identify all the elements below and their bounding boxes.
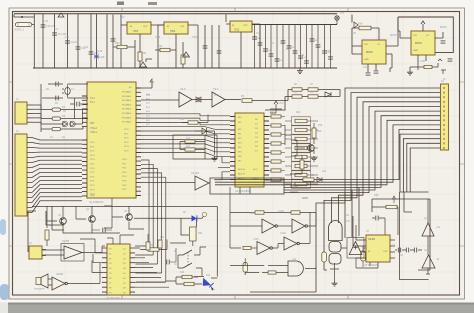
resistor R32	[160, 48, 170, 51]
resistor R38	[148, 248, 159, 251]
svg-text:U1 AT89C51: U1 AT89C51	[89, 200, 104, 204]
wire top supply rail	[14, 13, 337, 15]
wire U1-U2 data 1	[141, 114, 230, 116]
resistor R37	[45, 230, 49, 240]
wire speaker out	[48, 279, 52, 285]
wire C5	[170, 248, 176, 262]
svg-text:P0.5/AD5: P0.5/AD5	[122, 112, 132, 115]
resistor R50 on bus	[303, 178, 314, 181]
resistor R45	[291, 211, 300, 214]
resistor R42	[182, 275, 192, 278]
resistor network R13	[271, 115, 281, 118]
wire U2 lower left stubs	[214, 157, 230, 180]
inverter U12B	[292, 219, 305, 233]
wire rail drop 9	[106, 15, 108, 69]
svg-text:74LS: 74LS	[180, 89, 186, 91]
wire U3 left harness	[80, 239, 102, 273]
inverter U12D	[284, 237, 297, 250]
svg-text:P2.2: P2.2	[124, 138, 129, 140]
capacitor C9	[413, 248, 415, 253]
wire filter drop 5	[276, 25, 278, 69]
resistor R39	[146, 242, 150, 250]
svg-text:R37: R37	[48, 225, 53, 227]
wire bus K1 line 8	[215, 120, 441, 185]
svg-text:P0.7/AD7: P0.7/AD7	[122, 121, 132, 124]
svg-text:C10: C10	[44, 21, 49, 23]
regulator U10 7806	[164, 22, 188, 34]
svg-text:R40: R40	[160, 237, 165, 239]
regulator U9 7805	[127, 22, 151, 34]
wire A2 net	[427, 199, 429, 250]
svg-text:ULN: ULN	[345, 221, 350, 223]
capacitor C20	[263, 48, 268, 50]
wire R32 net	[155, 42, 176, 68]
junction dot	[21, 16, 23, 18]
wire section box top	[32, 205, 217, 207]
U5 left pins	[361, 240, 366, 258]
wire J1 pin 1	[27, 104, 33, 106]
svg-text:P0.0/AD0: P0.0/AD0	[122, 91, 132, 94]
wire U6C in	[141, 183, 230, 213]
wire J2 pin 7	[27, 164, 82, 167]
resistor R11	[185, 148, 195, 151]
wire J1 harness	[33, 105, 41, 124]
svg-text:R21: R21	[296, 112, 301, 114]
resistor R52	[361, 251, 366, 261]
capacitor C15	[111, 38, 116, 40]
svg-text:7805: 7805	[155, 37, 161, 39]
capacitor C17	[217, 50, 222, 52]
resistor R41	[190, 227, 197, 241]
svg-text:C12: C12	[65, 37, 70, 39]
capacitor C3 reset	[76, 102, 78, 107]
svg-text:R30: R30	[115, 42, 120, 45]
wire drop 14	[218, 25, 220, 68]
diode D13 on bus	[317, 177, 322, 182]
svg-text:VCC: VCC	[120, 17, 125, 19]
dc-dc converter U7	[362, 40, 386, 64]
wire rail drop 4	[77, 14, 79, 68]
svg-text:7806: 7806	[170, 31, 176, 33]
capacitor C19	[258, 42, 263, 44]
dc-dc converter U8	[411, 31, 435, 55]
resistor R44	[255, 211, 264, 214]
svg-text:P2.6: P2.6	[90, 168, 95, 170]
audio amp U5	[366, 235, 390, 262]
wire bus MCU down 3	[141, 169, 157, 264]
wire filter drop 13	[324, 25, 326, 69]
U3 right pins	[130, 248, 135, 292]
capacitor C8	[405, 248, 407, 253]
wire U1-U2 data 4	[141, 127, 230, 130]
wire Q1 net	[47, 206, 63, 234]
wire J2 pin 6	[27, 160, 82, 162]
wire BZ1 bottom	[330, 263, 339, 281]
power flag br	[392, 196, 396, 203]
svg-text:R41: R41	[198, 232, 203, 235]
power flag U1	[150, 79, 154, 82]
wire J2 pin 9	[27, 172, 82, 177]
svg-text:74LS: 74LS	[213, 89, 219, 91]
wire bus K1 line 14	[410, 148, 441, 192]
resistor R46 vertical	[243, 263, 248, 273]
wire R29 net	[313, 123, 315, 154]
resistor R4	[52, 128, 61, 131]
wire R34 right	[371, 28, 379, 40]
U3 left pins	[102, 248, 107, 292]
svg-text:4148: 4148	[99, 56, 105, 59]
svg-text:VO: VO	[377, 44, 380, 46]
wire rail drop 10	[112, 15, 114, 69]
wire U7 out	[386, 17, 398, 68]
svg-text:C11 104: C11 104	[58, 33, 68, 36]
capacitor C1	[55, 82, 57, 87]
wire switch link dashed	[187, 252, 189, 266]
ground U2 left	[212, 156, 218, 161]
buzzer BZ1 body	[329, 242, 341, 253]
ground Q4	[311, 156, 317, 161]
wire U1-U2 data 3	[141, 122, 230, 124]
wire inv2 out	[307, 213, 316, 227]
wire R48 net	[372, 207, 398, 235]
resistor R43	[184, 282, 194, 285]
resistor network R17	[271, 151, 281, 154]
wire drop 15	[225, 15, 227, 23]
wire reset net	[70, 103, 88, 105]
wire J2 pin 15	[27, 197, 82, 208]
wire J1 pin 3	[27, 113, 33, 115]
wire bus MCU down 5	[141, 177, 166, 282]
wire bus K1 line 7	[284, 116, 441, 236]
capacitor C21	[269, 53, 274, 55]
svg-text:VIN: VIN	[364, 44, 368, 46]
svg-text:P0.3/AD3: P0.3/AD3	[122, 103, 132, 106]
capacitor C6	[375, 216, 377, 221]
wire buffer out	[225, 99, 241, 101]
svg-text:R36: R36	[296, 156, 301, 158]
wire R34 left	[352, 15, 359, 39]
svg-text:LM386: LM386	[368, 239, 376, 241]
capacitor C26	[298, 55, 303, 57]
svg-text:OUT: OUT	[383, 251, 388, 253]
wire C6 net	[372, 218, 385, 235]
svg-text:R12: R12	[180, 119, 185, 121]
resistor R10	[185, 140, 195, 143]
svg-text:P1.0: P1.0	[90, 98, 95, 100]
wire U7 left pin	[352, 38, 362, 54]
resistor network R14	[271, 124, 281, 127]
wire bus K1 line 11	[400, 134, 441, 192]
wire rail drop 11	[120, 15, 122, 69]
wire row R3	[41, 98, 88, 119]
wire drop 12	[204, 25, 206, 68]
svg-text:7805: 7805	[133, 31, 139, 33]
wire D5 net	[195, 131, 215, 155]
svg-text:P1.1: P1.1	[90, 102, 95, 104]
wire D12 net	[194, 277, 217, 278]
capacitor C32	[366, 72, 371, 74]
U1 left pins	[82, 96, 87, 196]
wire U1-U2 data 8	[141, 144, 230, 147]
svg-text:OUT: OUT	[243, 25, 248, 27]
svg-text:P3.0: P3.0	[122, 159, 127, 161]
wire filter drop 7	[288, 25, 290, 69]
wire R42 net	[176, 276, 198, 278]
svg-text:P2.0: P2.0	[90, 142, 95, 144]
wire R30	[113, 40, 135, 68]
transistor Q1	[60, 218, 67, 225]
wire U1 P1 to buffer	[141, 99, 179, 101]
svg-text:OUT: OUT	[180, 26, 185, 28]
wire J1 pin 4	[27, 117, 33, 119]
wire bus K1 line 2	[324, 93, 441, 270]
switch S1	[178, 250, 200, 255]
svg-text:RST: RST	[90, 123, 95, 125]
svg-text:EOC: EOC	[253, 169, 258, 171]
wire U8 left pin	[398, 31, 411, 38]
wire and out	[305, 267, 316, 269]
speaker LS1	[36, 278, 41, 285]
svg-text:P2.7: P2.7	[90, 172, 95, 174]
resistor R35	[424, 65, 432, 68]
wire left rail	[41, 84, 48, 132]
wire bus K1 line 13	[407, 143, 441, 192]
wire bus K1 line 9	[215, 125, 441, 182]
scan artifact blue left	[0, 219, 6, 235]
wire xtal row top	[48, 83, 88, 85]
connector J1	[15, 102, 27, 124]
resistor R2	[52, 108, 61, 111]
diode D7	[58, 13, 64, 17]
svg-text:P0.4/AD4: P0.4/AD4	[122, 108, 132, 111]
wire filter drop 2	[259, 25, 261, 69]
and gate U13A	[288, 261, 303, 276]
buffer U6A	[179, 92, 192, 107]
capacitor C25	[293, 50, 298, 52]
microcontroller U1 AT89C51	[87, 82, 136, 198]
svg-text:P3.6: P3.6	[122, 185, 127, 187]
svg-text:D12: D12	[206, 275, 211, 277]
svg-text:XTAL1: XTAL1	[90, 131, 98, 134]
resistor network R18	[271, 160, 281, 163]
wire inv4 out	[299, 213, 310, 244]
svg-text:U12B: U12B	[278, 211, 284, 213]
svg-text:P2.0: P2.0	[90, 176, 95, 178]
svg-text:BZ1: BZ1	[345, 215, 350, 217]
svg-text:U6A: U6A	[146, 94, 151, 97]
svg-text:P2.4: P2.4	[124, 146, 129, 148]
wire R35 gnd	[410, 59, 446, 74]
wire rowB left drop	[265, 97, 285, 111]
wire R38 net	[135, 240, 167, 250]
capacitor C22	[275, 58, 280, 60]
resistor R49	[268, 271, 276, 274]
svg-text:P2.5: P2.5	[124, 151, 129, 153]
capacitor C2	[55, 96, 57, 101]
switch S2	[178, 263, 202, 268]
wire U1-U2 data 5	[141, 131, 230, 134]
wire regulated rail	[252, 24, 337, 26]
wire net row B	[285, 96, 340, 98]
power port VCC top	[335, 16, 339, 20]
resistor R24	[292, 144, 311, 152]
wire J2 pin 12	[27, 185, 82, 193]
svg-text:P3.3: P3.3	[122, 172, 127, 174]
wire J2 pin 8	[27, 168, 82, 172]
resistor R9	[308, 95, 318, 98]
wire row R4	[41, 126, 83, 129]
wire row2 link	[251, 247, 257, 249]
svg-text:P3.2: P3.2	[122, 168, 127, 170]
wire cap row	[395, 249, 422, 251]
wire filter drop 9	[300, 25, 302, 69]
wire bus K1 line 1	[316, 88, 441, 292]
svg-text:P2.3: P2.3	[90, 189, 95, 191]
capacitor C23	[281, 40, 286, 42]
wire buffer link	[192, 99, 212, 101]
diode D3 bowtie	[196, 97, 201, 102]
svg-text:P2.5: P2.5	[90, 164, 95, 166]
svg-text:P2.4: P2.4	[90, 159, 95, 161]
buzzer BZ1 gate shape	[329, 221, 343, 241]
capacitor C30	[322, 50, 327, 52]
wire filter drop 11	[311, 25, 313, 69]
svg-text:GND: GND	[364, 59, 369, 61]
wire U7 gnd drop	[390, 68, 392, 72]
svg-text:GND: GND	[420, 61, 425, 63]
wire R12 net	[182, 115, 208, 123]
wire filter drop 1	[254, 25, 256, 69]
wire Q2 net	[76, 206, 120, 234]
wire bus K1 line 12	[403, 139, 441, 192]
svg-text:U2 ADC0809: U2 ADC0809	[235, 189, 251, 193]
wire br right box	[418, 199, 430, 270]
wire label stubs	[290, 186, 308, 198]
wire U2 start net	[209, 180, 284, 194]
wire bus K1 line 4	[339, 102, 442, 223]
wire U1 VCC top	[141, 82, 152, 88]
svg-text:XTAL2: XTAL2	[90, 127, 98, 130]
wire R43 net	[166, 277, 202, 284]
svg-text:7812: 7812	[234, 30, 240, 32]
wire inv1 link	[277, 225, 292, 227]
resistor R23	[292, 135, 311, 143]
svg-text:VCC: VCC	[279, 103, 284, 105]
wire supply ground bus	[33, 67, 337, 69]
connector K1	[441, 84, 449, 150]
wire U7 bottom caps	[368, 64, 376, 72]
capacitor C14	[89, 51, 94, 53]
wire U9 in	[121, 25, 164, 68]
wire J2 pin 4	[27, 151, 82, 153]
svg-text:U13: U13	[292, 259, 297, 261]
wire bus MCU down 1	[141, 160, 149, 246]
buffer U6B	[212, 92, 225, 107]
wire J3 pins	[42, 250, 46, 256]
capacitor C10	[41, 24, 46, 26]
regulator U11 7812	[230, 21, 252, 32]
wire J2 pin 10	[27, 176, 82, 182]
svg-text:P3.7: P3.7	[122, 189, 127, 191]
wire R37 down	[46, 240, 48, 246]
wire rail drop 6	[96, 14, 98, 68]
svg-text:U12A: U12A	[249, 212, 255, 215]
buffer U6C	[195, 176, 209, 190]
cursor arrow artifact	[211, 286, 215, 291]
svg-text:P2.1: P2.1	[90, 146, 95, 148]
wire U1-U2 data 10	[141, 153, 230, 157]
top margin marks (artifact)	[117, 2, 124, 6]
wire net row A	[288, 90, 340, 97]
resistor R40	[158, 240, 162, 248]
capacitor C13	[76, 46, 81, 48]
diode D9	[140, 62, 147, 67]
svg-text:LM358: LM358	[62, 241, 70, 243]
capacitor C5	[166, 260, 168, 265]
U1 right pins	[136, 88, 141, 196]
svg-text:P0.2/AD2: P0.2/AD2	[122, 99, 132, 102]
wire U8 bottom	[418, 21, 426, 63]
transistor Q3	[126, 214, 133, 221]
svg-text:C14: C14	[84, 47, 89, 49]
wire U5 bottom	[370, 262, 378, 268]
wire bus K1 line 3	[332, 97, 442, 223]
wire drop 13	[211, 25, 213, 68]
wire J2 pin 14	[27, 193, 82, 203]
svg-text:GND: GND	[413, 50, 418, 52]
capacitor C34	[441, 40, 446, 42]
wire bus K1 line 5	[284, 107, 441, 239]
wire stub column	[317, 117, 319, 126]
opamp U4A	[64, 246, 82, 259]
wire filter drop 6	[282, 25, 284, 69]
svg-text:OUT: OUT	[143, 26, 148, 28]
svg-text:+5V: +5V	[340, 13, 345, 15]
svg-text:P2.1: P2.1	[90, 181, 95, 183]
svg-text:B0505: B0505	[366, 52, 373, 54]
svg-text:P2.1: P2.1	[124, 133, 129, 135]
wire box below U2	[210, 178, 284, 194]
wire logic row1 top	[230, 212, 316, 214]
amplifier A3	[422, 255, 435, 268]
svg-text:P3.5: P3.5	[122, 181, 127, 183]
LED D6	[192, 215, 197, 221]
diode D8	[94, 55, 99, 59]
resistor R6	[292, 88, 302, 91]
wire J2 pin 13	[27, 189, 82, 198]
wire U1-U2 data 2	[141, 118, 230, 120]
U2 right pins	[264, 117, 269, 180]
wire filter drop 12	[317, 25, 319, 69]
wire U8 right pin	[435, 32, 443, 38]
svg-text:R42: R42	[180, 272, 185, 274]
resistor network R20	[271, 178, 281, 181]
adc U2 ADC0809	[235, 113, 264, 187]
wire bus K1 line 10	[215, 130, 441, 180]
wire R41 net	[170, 241, 193, 246]
resistor R28	[292, 180, 311, 188]
wire U11 net	[226, 24, 260, 68]
capacitor C4	[102, 228, 104, 233]
wire section box left	[28, 211, 36, 252]
wire filter drop 14	[330, 25, 332, 69]
resistor network R15	[271, 133, 281, 136]
svg-text:4148: 4148	[97, 51, 103, 53]
resistor R33	[181, 55, 185, 64]
wire A3 net	[426, 250, 430, 274]
wire supply mid	[146, 59, 152, 68]
svg-text:74LS04: 74LS04	[191, 173, 200, 175]
